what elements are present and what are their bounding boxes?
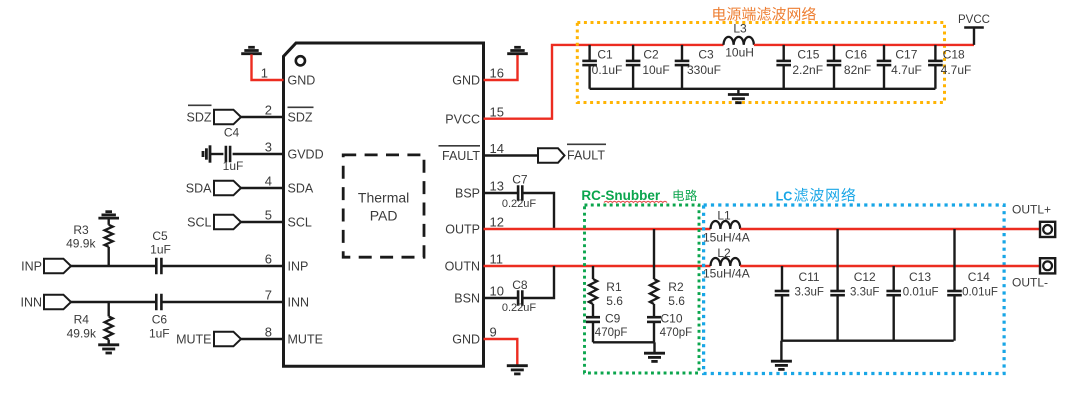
svg-text:FAULT: FAULT	[567, 149, 605, 163]
svg-text:FAULT: FAULT	[442, 149, 480, 163]
wire OUTN to OUTL- (red)	[740, 265, 1040, 267]
svg-text:C17: C17	[895, 47, 917, 61]
svg-text:BSN: BSN	[454, 292, 480, 306]
inductor L2	[711, 258, 741, 266]
inductor L3	[724, 37, 754, 45]
svg-text:PVCC: PVCC	[958, 14, 990, 26]
capacitor C15	[783, 45, 785, 61]
wire LC ground rail	[781, 340, 953, 342]
capacitor C18	[934, 45, 936, 61]
svg-text:4.7uF: 4.7uF	[941, 63, 972, 77]
capacitor C11	[781, 266, 783, 291]
svg-text:INN: INN	[288, 296, 310, 310]
svg-text:C15: C15	[797, 47, 819, 61]
svg-text:1uF: 1uF	[150, 243, 171, 257]
svg-text:82nF: 82nF	[844, 63, 871, 77]
svg-text:GVDD: GVDD	[288, 148, 324, 162]
dotted box: power supply filter network	[577, 23, 944, 103]
wire C6 to pin 7 INN	[161, 301, 283, 303]
input flag INN	[44, 295, 71, 310]
svg-text:0.1uF: 0.1uF	[592, 63, 623, 77]
svg-text:C9: C9	[605, 312, 621, 326]
wire pin 16 GND (red)	[484, 54, 518, 80]
wire pin 15 PVCC (red)	[484, 45, 724, 119]
title 电源端滤波网络 (power filter network)	[713, 7, 726, 21]
dotted box: LC filter network	[704, 205, 1005, 374]
svg-text:C7: C7	[512, 172, 528, 186]
svg-text:5.6: 5.6	[606, 294, 623, 308]
svg-text:C12: C12	[854, 270, 876, 284]
svg-text:6: 6	[265, 252, 272, 267]
svg-text:8: 8	[265, 325, 272, 340]
capacitor C10	[647, 317, 661, 322]
svg-text:C6: C6	[152, 313, 168, 327]
capacitor C9	[586, 317, 600, 322]
svg-text:12: 12	[490, 215, 504, 230]
svg-text:INP: INP	[21, 259, 42, 273]
svg-text:GND: GND	[452, 74, 480, 88]
red squiggle (spellcheck underline)	[604, 201, 667, 202]
wire pin 8	[241, 338, 283, 340]
svg-text:BSP: BSP	[455, 187, 480, 201]
wire pin 12 OUTP (red)	[484, 228, 711, 230]
connector OUTL+	[1040, 222, 1055, 237]
wire pin 10 BSN to C8	[484, 297, 518, 299]
svg-text:RC-Snubber: RC-Snubber	[581, 188, 660, 203]
svg-text:3.3uF: 3.3uF	[850, 287, 879, 299]
ground (pin 16)	[507, 47, 528, 53]
wire C8 to OUTN net	[523, 266, 554, 298]
wire pin 5	[241, 221, 283, 223]
svg-text:10uH: 10uH	[725, 46, 754, 60]
svg-text:OUTP: OUTP	[445, 223, 480, 237]
svg-text:MUTE: MUTE	[288, 333, 323, 347]
svg-text:C1: C1	[597, 47, 613, 61]
capacitor C1	[588, 45, 590, 61]
svg-text:C5: C5	[152, 229, 168, 243]
svg-text:L1: L1	[717, 209, 731, 223]
ground (LC filter)	[780, 341, 782, 362]
input flag SDZ	[214, 110, 241, 125]
wire PVCC rail right of L3 (red)	[754, 44, 974, 46]
connector OUTL-	[1040, 258, 1055, 273]
wire INP to C5	[71, 265, 156, 267]
svg-text:3.3uF: 3.3uF	[794, 287, 823, 299]
svg-text:470pF: 470pF	[595, 327, 628, 339]
wire filter ground rail	[590, 88, 936, 90]
svg-text:R3: R3	[73, 223, 89, 237]
power terminal PVCC	[964, 28, 984, 45]
svg-text:C11: C11	[798, 270, 819, 284]
ground (filter network)	[737, 89, 739, 94]
svg-text:4.7uF: 4.7uF	[891, 63, 922, 77]
wire ground to C4	[210, 153, 223, 155]
IC pin-1 indicator circle	[296, 56, 305, 65]
input flag SDA	[214, 181, 241, 196]
capacitor C13	[893, 266, 895, 291]
svg-text:OUTL-: OUTL-	[1012, 276, 1048, 290]
wire C5 to pin 6 INP	[161, 265, 283, 267]
resistor R2	[653, 229, 655, 279]
svg-text:470pF: 470pF	[660, 327, 693, 339]
ground (GVDD decoupling, sideways)	[203, 145, 210, 162]
svg-text:0.01uF: 0.01uF	[903, 287, 939, 299]
wire C7 to OUTP net	[523, 193, 554, 229]
svg-text:49.9k: 49.9k	[66, 237, 96, 251]
ground (pin 1, top-left)	[241, 47, 262, 53]
wire pin 2	[241, 116, 283, 118]
overline for IC pin FAULT	[439, 145, 481, 147]
dotted box: RC-Snubber circuit	[585, 205, 700, 373]
thermal pad dashed outline	[343, 155, 424, 257]
resistor R1	[592, 266, 594, 279]
svg-text:3: 3	[265, 140, 272, 155]
svg-text:INN: INN	[20, 295, 42, 309]
wire pin 1 GND (red)	[252, 54, 284, 80]
overline for net label SDZ	[188, 104, 212, 106]
svg-text:PVCC: PVCC	[445, 113, 480, 127]
svg-text:9: 9	[490, 325, 497, 340]
svg-text:SDA: SDA	[186, 181, 212, 195]
svg-text:OUTL+: OUTL+	[1012, 203, 1051, 217]
svg-text:R2: R2	[668, 280, 684, 294]
svg-text:C2: C2	[643, 47, 659, 61]
svg-text:R4: R4	[74, 313, 90, 327]
wire pin 11 OUTN (red)	[484, 265, 711, 267]
svg-text:2: 2	[265, 103, 272, 118]
svg-text:15uH/4A: 15uH/4A	[703, 231, 750, 245]
capacitor C7	[518, 185, 522, 201]
svg-text:SDA: SDA	[288, 182, 314, 196]
overline for IC pin SDZ	[288, 106, 314, 108]
svg-text:GND: GND	[288, 74, 316, 88]
svg-text:SDZ: SDZ	[187, 110, 212, 124]
svg-text:MUTE: MUTE	[176, 332, 211, 346]
svg-text:0.01uF: 0.01uF	[962, 287, 998, 299]
svg-text:0.22uF: 0.22uF	[502, 198, 537, 210]
wire pin 9 GND (red)	[484, 339, 518, 366]
wire snubber ground link	[593, 341, 655, 343]
svg-text:10uF: 10uF	[642, 63, 669, 77]
svg-text:C18: C18	[943, 47, 965, 61]
svg-text:15: 15	[490, 105, 504, 120]
svg-text:13: 13	[490, 179, 504, 194]
svg-text:49.9k: 49.9k	[67, 327, 97, 341]
svg-text:1: 1	[261, 66, 268, 81]
svg-text:L2: L2	[717, 246, 731, 260]
input flag SCL	[214, 215, 241, 230]
svg-text:5: 5	[265, 208, 272, 223]
output flag FAULT	[538, 148, 565, 163]
input flag MUTE	[214, 332, 241, 347]
wire pin 4	[241, 187, 283, 189]
svg-text:C13: C13	[909, 270, 931, 284]
capacitor C14	[953, 229, 955, 291]
inductor L1	[711, 221, 741, 229]
resistor R3	[107, 218, 109, 225]
svg-text:R1: R1	[606, 280, 622, 294]
svg-text:0.22uF: 0.22uF	[502, 302, 537, 314]
svg-text:L3: L3	[733, 22, 747, 36]
ground (snubber)	[653, 342, 655, 353]
svg-text:GND: GND	[452, 333, 480, 347]
svg-text:SDZ: SDZ	[288, 111, 313, 125]
svg-text:Thermal: Thermal	[358, 190, 409, 206]
svg-text:LC: LC	[776, 190, 793, 204]
capacitor C8	[518, 290, 522, 306]
svg-text:OUTN: OUTN	[445, 260, 480, 274]
op-amp/class-D amplifier IC U1 body	[284, 43, 484, 366]
ground (pin 9)	[507, 366, 528, 374]
ground (below R4)	[98, 345, 119, 353]
capacitor C2	[632, 45, 634, 61]
input flag INP	[44, 259, 71, 274]
ground (above R3)	[98, 212, 119, 218]
svg-text:SCL: SCL	[187, 215, 211, 229]
svg-text:C16: C16	[845, 47, 867, 61]
svg-text:PAD: PAD	[370, 208, 398, 224]
capacitor C16	[833, 45, 835, 61]
svg-text:16: 16	[490, 66, 504, 81]
wire pin 14	[484, 154, 539, 156]
svg-text:C8: C8	[512, 278, 528, 292]
svg-text:C10: C10	[661, 312, 683, 326]
wire pin 13 BSP to C7	[484, 192, 518, 194]
capacitor C6	[156, 294, 161, 311]
svg-text:15uH/4A: 15uH/4A	[703, 267, 750, 281]
svg-text:330uF: 330uF	[687, 63, 721, 77]
capacitor C17	[883, 45, 885, 61]
resistor R4	[107, 302, 109, 316]
svg-text:4: 4	[265, 174, 272, 189]
svg-text:2.2nF: 2.2nF	[792, 63, 823, 77]
svg-text:14: 14	[490, 141, 504, 156]
overline for net label FAULT	[567, 143, 606, 145]
svg-text:10: 10	[490, 284, 504, 299]
svg-text:INP: INP	[288, 260, 309, 274]
wire pin 3 GVDD	[233, 153, 284, 155]
wire OUTP to OUTL+ (red)	[740, 228, 1040, 230]
svg-text:C4: C4	[224, 126, 240, 140]
capacitor C12	[836, 229, 838, 291]
wire INN to C6	[71, 301, 156, 303]
capacitor C5	[156, 258, 161, 275]
svg-text:1uF: 1uF	[223, 159, 244, 173]
svg-text:5.6: 5.6	[668, 294, 685, 308]
svg-text:7: 7	[265, 288, 272, 303]
svg-text:C3: C3	[698, 47, 714, 61]
svg-text:11: 11	[490, 252, 504, 267]
svg-text:1uF: 1uF	[149, 327, 170, 341]
svg-text:SCL: SCL	[288, 216, 312, 230]
capacitor C3	[681, 45, 683, 61]
svg-text:C14: C14	[968, 270, 990, 284]
capacitor C4	[226, 146, 230, 163]
